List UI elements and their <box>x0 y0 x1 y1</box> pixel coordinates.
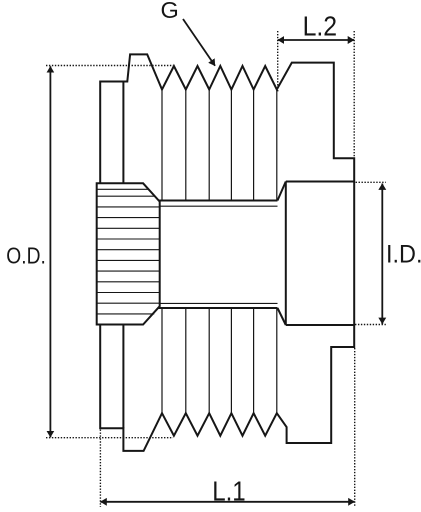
svg-text:G: G <box>161 0 179 23</box>
rim inner band upper thin line <box>159 205 278 207</box>
extension line I.D. top <box>356 181 386 183</box>
extension line O.D. top <box>46 65 173 67</box>
rim inner band lower thick line <box>158 307 278 309</box>
extension line L.2 left <box>277 31 279 92</box>
bore rectangle top edge <box>286 181 354 183</box>
bore rectangle bottom edge <box>286 324 354 326</box>
groove root lines bottom <box>162 308 277 413</box>
svg-text:I.D.: I.D. <box>386 240 421 268</box>
bore rectangle left edge <box>285 182 287 326</box>
chamfer upper <box>278 182 286 201</box>
dimension line O.D. <box>49 66 51 437</box>
leader arrow G <box>183 19 215 66</box>
svg-text:L.1: L.1 <box>212 475 246 506</box>
svg-text:O.D.: O.D. <box>6 243 46 269</box>
extension line L.1 right <box>354 348 356 507</box>
extension line L.2 right <box>353 31 355 158</box>
spline hatch lines <box>97 189 160 314</box>
dimension line L.2 <box>278 39 354 41</box>
dimension line L.1 <box>100 501 354 503</box>
extension line O.D. bottom <box>46 437 173 439</box>
rim inner band upper thick line <box>158 200 278 202</box>
hub sleeve inner edge <box>122 82 124 429</box>
splined hub block <box>97 183 160 324</box>
groove root lines top <box>162 90 277 201</box>
dimension line I.D. <box>381 184 383 325</box>
rim inner band lower thin line <box>159 302 278 304</box>
pulley outer cross-section outline <box>100 54 354 451</box>
extension line I.D. bottom <box>355 324 386 326</box>
svg-text:L.2: L.2 <box>303 11 338 42</box>
chamfer lower <box>278 308 286 325</box>
extension line L.1 left <box>99 430 101 508</box>
